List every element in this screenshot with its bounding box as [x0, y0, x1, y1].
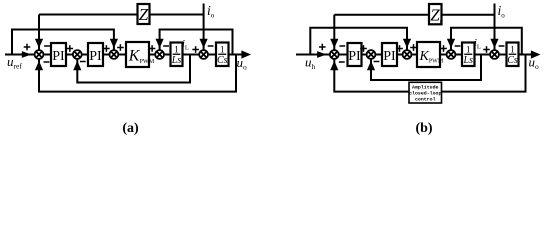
svg-text:PI: PI [52, 49, 65, 64]
svg-text:Ls: Ls [463, 55, 474, 66]
svg-text:1: 1 [220, 44, 225, 54]
svg-text:Cs: Cs [217, 55, 228, 66]
svg-text:closed-loop: closed-loop [409, 91, 441, 97]
svg-text:control: control [415, 97, 436, 103]
svg-text:1: 1 [466, 44, 471, 54]
svg-text:Cs: Cs [507, 55, 518, 66]
svg-text:Amplitude: Amplitude [412, 85, 438, 91]
svg-text:1: 1 [510, 44, 515, 54]
svg-text:(a): (a) [122, 121, 139, 136]
svg-text:(b): (b) [415, 121, 432, 136]
svg-text:PI: PI [383, 49, 396, 64]
svg-text:Ls: Ls [171, 55, 182, 66]
svg-text:PI: PI [89, 49, 102, 64]
svg-text:PI: PI [348, 49, 361, 64]
svg-text:1: 1 [174, 44, 179, 54]
